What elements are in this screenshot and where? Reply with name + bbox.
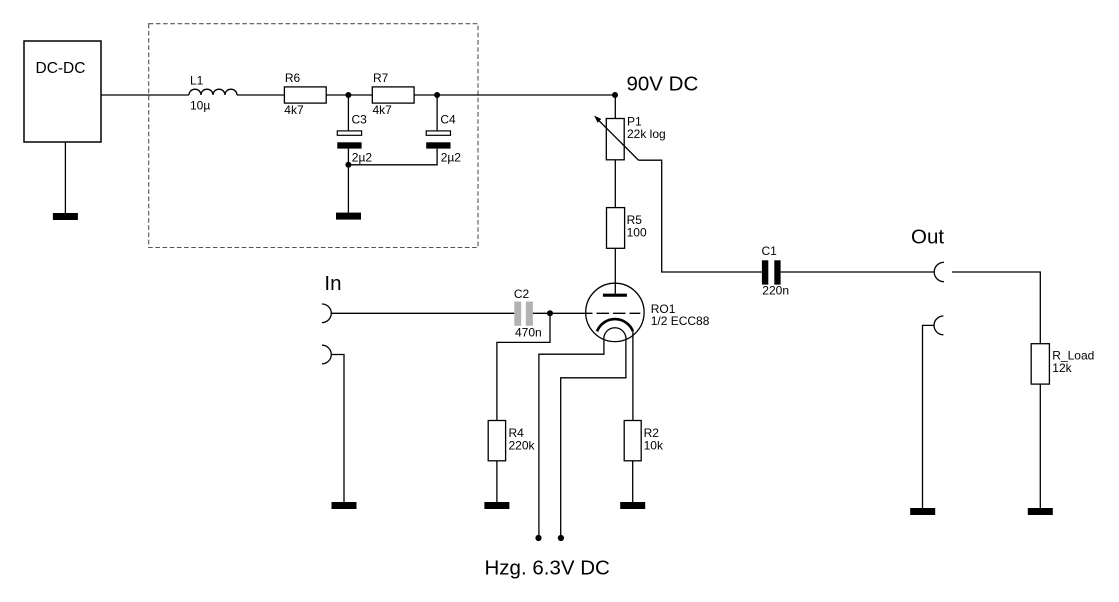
- svg-text:DC-DC: DC-DC: [36, 60, 86, 77]
- capacitor C1: [762, 244, 790, 297]
- ground below In pin 2: [332, 502, 357, 509]
- capacitor C2: [514, 287, 542, 340]
- node junction grid/R4: [547, 310, 553, 316]
- svg-text:220n: 220n: [762, 283, 789, 297]
- svg-text:4k7: 4k7: [373, 103, 393, 117]
- svg-text:12k: 12k: [1052, 361, 1072, 375]
- wire cathode to R2: [632, 331, 634, 420]
- heater arc: [604, 328, 626, 341]
- grid dashed: [586, 312, 640, 314]
- wire Out pin to R_Load: [952, 272, 1040, 344]
- svg-text:R6: R6: [285, 71, 301, 85]
- cathode arc: [597, 319, 633, 331]
- svg-text:C3: C3: [352, 113, 368, 127]
- node junction R7/C4: [434, 92, 440, 98]
- connector Out pin 1: [911, 225, 944, 281]
- wire 90V node to P1: [614, 95, 616, 119]
- ground below Out pin 2: [910, 508, 935, 515]
- svg-text:4k7: 4k7: [284, 103, 304, 117]
- svg-text:470n: 470n: [515, 325, 542, 339]
- heater terminal dot right: [558, 535, 564, 541]
- wire P1 bottom to R5: [614, 160, 616, 208]
- ground below R2: [620, 502, 645, 509]
- resistor R5: [607, 208, 647, 249]
- connector In pin 1: [322, 272, 342, 323]
- svg-text:Hzg. 6.3V DC: Hzg. 6.3V DC: [485, 557, 611, 580]
- connector Out pin 2: [934, 316, 943, 335]
- wire R6 to R7: [326, 94, 372, 96]
- svg-text:220k: 220k: [509, 438, 536, 452]
- svg-text:R7: R7: [373, 71, 389, 85]
- wire heater pin right: [561, 340, 626, 536]
- wire R_Load to ground: [1039, 384, 1041, 508]
- resistor R7: [372, 71, 414, 117]
- wire junction to C4 top: [436, 95, 438, 131]
- ground below C3/C4: [336, 213, 361, 220]
- ground below DC-DC: [53, 213, 78, 220]
- resistor R4: [488, 421, 535, 461]
- svg-text:C2: C2: [514, 287, 530, 301]
- wire C1 to Out connector: [781, 271, 934, 273]
- node 90V DC: [612, 73, 698, 99]
- anode plate: [603, 294, 627, 297]
- DC-DC converter module U1: [24, 41, 101, 142]
- dashed filter box frame: [149, 24, 478, 248]
- svg-text:2µ2: 2µ2: [352, 151, 373, 165]
- svg-text:Out: Out: [911, 225, 944, 248]
- wire junction to R4: [497, 313, 550, 420]
- wire DC-DC to ground: [64, 142, 66, 213]
- wire In pin 2 to ground: [331, 355, 344, 503]
- svg-text:L1: L1: [190, 74, 204, 88]
- node junction R6/R7/C3: [345, 92, 351, 98]
- svg-text:C1: C1: [762, 244, 778, 258]
- svg-text:1/2 ECC88: 1/2 ECC88: [651, 314, 710, 328]
- triode RO1 1/2 ECC88: [586, 283, 710, 341]
- svg-text:90V DC: 90V DC: [627, 73, 699, 96]
- wire C3 bottom to ground junction: [347, 149, 349, 213]
- wire C4 bottom to junction: [348, 149, 437, 165]
- node junction C3/C4 bottom: [345, 162, 351, 168]
- svg-text:In: In: [324, 272, 341, 295]
- resistor R2: [624, 421, 664, 461]
- wire Out pin 2 to ground: [923, 325, 934, 508]
- svg-text:2µ2: 2µ2: [441, 151, 462, 165]
- svg-text:100: 100: [627, 225, 647, 239]
- heater terminal dot left: [535, 535, 541, 541]
- svg-text:C4: C4: [440, 113, 456, 127]
- potentiometer P1: [594, 115, 666, 161]
- wire DC-DC output to L1: [101, 94, 189, 96]
- wire P1 wiper to C1: [639, 160, 762, 272]
- wire C2 to tube grid: [533, 312, 586, 314]
- resistor R6: [284, 71, 326, 117]
- wire In to C2: [331, 312, 514, 314]
- wire R7 to 90V node: [414, 94, 615, 96]
- ground below R_Load: [1028, 508, 1053, 515]
- wire R2 to ground: [632, 461, 634, 502]
- svg-text:10µ: 10µ: [190, 99, 210, 113]
- wire R4 to ground: [496, 461, 498, 502]
- svg-text:10k: 10k: [644, 438, 664, 452]
- wire R5 to tube anode: [614, 248, 616, 293]
- connector In pin 2: [322, 345, 331, 364]
- resistor R_Load: [1031, 344, 1094, 384]
- wire heater pin left: [539, 340, 604, 536]
- wire junction to C3 top: [347, 95, 349, 131]
- svg-text:22k log: 22k log: [627, 127, 666, 141]
- capacitor C4: [426, 113, 461, 165]
- inductor L1: [189, 74, 237, 113]
- capacitor C3: [337, 113, 372, 165]
- wire L1 to R6: [237, 94, 284, 96]
- ground below R4: [484, 502, 509, 509]
